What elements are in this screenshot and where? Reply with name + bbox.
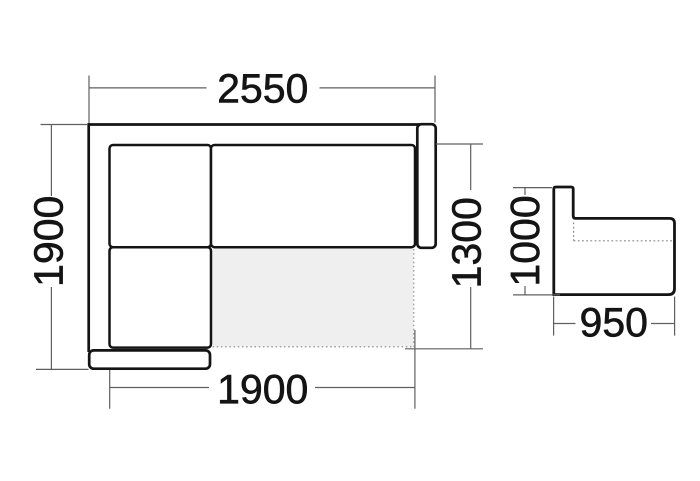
seat cushion upper-right — [211, 145, 415, 247]
right armrest — [417, 124, 435, 248]
dim 950 tick left — [553, 297, 555, 336]
dim 1900 bottom extension right — [414, 330, 416, 409]
bottom armrest — [89, 350, 210, 368]
dim 1300 extension bottom — [405, 348, 483, 350]
dim label 2550 — [219, 74, 306, 103]
side view profile — [554, 187, 675, 295]
sofa left outer edge — [87, 123, 90, 352]
dim 2550 extension line right — [434, 76, 436, 123]
dim label 1900 left — [34, 197, 63, 283]
sofa back top edge — [88, 123, 431, 126]
dim label 1300 — [452, 199, 481, 285]
dim 1900 left line — [50, 125, 52, 370]
chaise dotted right border — [413, 249, 415, 347]
dim 1300 extension top — [436, 143, 483, 145]
dim 1900 left extension bottom — [36, 368, 89, 370]
dim label 1900 bottom — [220, 375, 307, 404]
dim 950 tick right — [674, 297, 676, 336]
side view dotted seat line — [574, 223, 674, 241]
dim label 950 — [581, 308, 646, 337]
dim 1000 line — [524, 188, 526, 295]
dim 1900 left extension top — [41, 124, 88, 126]
dim 1000 extension bottom — [513, 294, 560, 296]
seat cushion lower-left — [110, 247, 212, 347]
chaise shaded area — [213, 249, 414, 347]
dim 1300 line — [470, 144, 472, 349]
dim 2550 line — [89, 87, 435, 89]
dim 1900 bottom line — [110, 387, 415, 389]
dim 1000 extension top — [513, 187, 552, 189]
chaise dotted bottom border — [213, 346, 414, 348]
dim 2550 extension line left — [88, 76, 90, 124]
seat cushion upper-left — [110, 145, 212, 247]
dim 950 line — [554, 323, 675, 325]
dim 1900 bottom extension left — [109, 370, 111, 409]
dim label 1000 — [511, 197, 540, 284]
